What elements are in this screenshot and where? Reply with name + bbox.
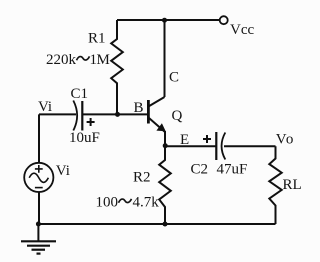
svg-text:47uF: 47uF [217,162,248,178]
svg-text:R1: R1 [88,31,106,47]
svg-text:100: 100 [96,195,119,211]
wire left rail down [38,114,40,224]
svg-text:C1: C1 [71,86,89,102]
wire C1 to base node [82,113,148,115]
capacitor C2 [203,132,225,160]
bottom rail wire [38,223,275,225]
node R2 bottom junction [163,222,168,227]
capacitor C1 [73,101,94,131]
svg-text:C: C [169,70,179,86]
top rail wire [117,19,219,21]
svg-text:1M: 1M [90,52,110,68]
svg-text:C2: C2 [191,162,209,178]
node junction top (collector to rail) [162,18,167,23]
svg-text:4.7k: 4.7k [133,195,160,211]
resistor RL [269,146,281,224]
svg-text:Vi: Vi [38,99,52,115]
source Vi [24,163,53,192]
svg-text:220k: 220k [46,52,77,68]
svg-text:RL: RL [283,177,302,193]
node E junction [163,143,168,148]
svg-text:R2: R2 [133,170,151,186]
svg-text:Q: Q [172,108,183,124]
Vcc terminal [220,16,228,24]
node B junction [115,112,120,117]
svg-text:10uF: 10uF [69,130,100,146]
transistor Q1 [148,97,165,132]
ground junction [36,222,41,227]
svg-text:Vcc: Vcc [230,22,254,38]
svg-text:B: B [134,100,144,116]
svg-text:Vo: Vo [276,132,295,148]
emitter wire [164,131,166,146]
resistor R2 [159,146,171,224]
svg-text:Vi: Vi [56,163,70,179]
wire emitter to C2 [165,145,216,147]
wire left input [39,113,76,115]
collector wire [164,20,166,97]
wire C2 to output [224,145,276,147]
resistor R1 [111,20,123,115]
ground [21,224,56,254]
